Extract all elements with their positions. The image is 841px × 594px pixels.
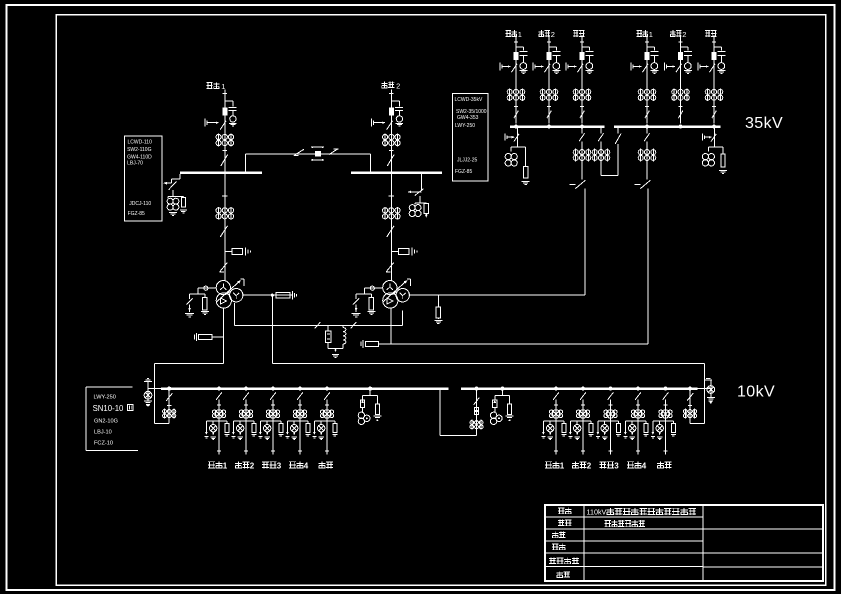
wire LV run to 10kV bus I xyxy=(154,362,223,364)
wire T1 MV lead with surge arrester xyxy=(242,294,293,296)
svg-text:1: 1 xyxy=(223,461,228,470)
35kV bus tie between sections xyxy=(600,127,602,134)
svg-text:3: 3 xyxy=(614,461,619,470)
transformer T2 neutral grounding switch + arrester xyxy=(365,287,383,289)
10kV outgoing feeder 线路1 (x=556) xyxy=(553,392,559,400)
10kV busbar section II xyxy=(461,387,697,390)
wire T2 MV lead to 35kV bus I xyxy=(408,294,585,296)
svg-text:JLJJ2-25: JLJJ2-25 xyxy=(457,158,478,164)
title row label 名称 xyxy=(558,519,564,521)
label 线路2 xyxy=(540,30,542,37)
svg-text:1: 1 xyxy=(560,461,565,470)
10kV outgoing feeder 线路2 (x=583) xyxy=(580,392,586,400)
label 线路2 xyxy=(237,461,239,468)
svg-text:JDCJ-110: JDCJ-110 xyxy=(129,201,151,207)
svg-text:2: 2 xyxy=(587,461,592,470)
10kV busbar section I xyxy=(161,387,449,390)
title row label 班级 xyxy=(554,532,556,538)
10kV outgoing feeder 备用 (x=665.5) xyxy=(663,392,669,400)
35kV outgoing feeder 线路1 (x=647) xyxy=(646,35,648,124)
svg-text:SN10-10: SN10-10 xyxy=(93,404,124,413)
35kV incomer to bus I (breaker + CTs) xyxy=(580,125,584,129)
35kV bus II PT + arrester at right end xyxy=(714,128,716,147)
arc suppression coil with damping resistor xyxy=(327,325,329,331)
10kV bus I end voltage transformer xyxy=(148,388,161,390)
label 备用 xyxy=(705,30,710,32)
svg-text:2: 2 xyxy=(551,30,555,39)
10kV outgoing feeder 线路4 (x=638) xyxy=(635,392,641,400)
svg-text:GN2-10G: GN2-10G xyxy=(94,418,118,424)
35kV busbar section II xyxy=(614,125,721,128)
10kV outgoing feeder 线路1 (x=219) xyxy=(216,392,222,400)
T2 MV surge arrester xyxy=(437,295,439,307)
T2 LV surge arrester on line xyxy=(365,341,378,346)
svg-text:4: 4 xyxy=(304,461,309,470)
bridge disconnector right xyxy=(329,149,338,155)
transformer T1 (three-winding, on-load tap changer) xyxy=(216,281,230,295)
110kV left bar PT + arrester cluster xyxy=(179,174,181,179)
10kV bus I voltage transformer + arrester branch xyxy=(369,389,371,396)
35kV outgoing feeder 线路2 (x=549) xyxy=(548,35,550,124)
svg-text:3: 3 xyxy=(277,461,282,470)
wire T1 LV lead down xyxy=(222,308,224,363)
35kV outgoing feeder 线路1 (x=516) xyxy=(515,35,517,124)
label 线路2 (110kV line 2) xyxy=(383,82,385,89)
10kV outgoing feeder 线路2 (x=246) xyxy=(243,392,249,400)
label 备用 xyxy=(660,461,662,468)
disconnector on coil line left xyxy=(315,322,321,328)
transformer T2 110kV riser (CTs, disconnector, neutral arrester) xyxy=(390,174,392,281)
svg-text:FCZ-10: FCZ-10 xyxy=(94,441,113,447)
label 线路1 xyxy=(208,461,215,463)
svg-text:2: 2 xyxy=(682,30,686,39)
label 线路1 xyxy=(545,461,552,463)
10kV outgoing feeder 线路3 (x=273) xyxy=(270,392,276,400)
10kV outgoing feeder 备用 (x=327) xyxy=(324,392,330,400)
transformer T2 (three-winding, on-load tap changer) xyxy=(383,281,397,295)
disconnector on coil line right xyxy=(351,322,357,328)
junction dots on 10kV buses xyxy=(167,387,171,391)
10kV bus II end voltage transformer xyxy=(697,388,711,390)
35kV bus I PT + arrester at left end xyxy=(517,128,519,147)
label 线路1 (110kV line 1) xyxy=(207,82,213,84)
svg-text:4: 4 xyxy=(642,461,647,470)
10kV outgoing feeder 线路3 (x=610.5) xyxy=(608,392,614,400)
svg-text:LCWD-110: LCWD-110 xyxy=(128,139,153,145)
equipment list box 110kV (LCWD-110) xyxy=(125,136,163,221)
110kV incoming line 2 feeder xyxy=(390,90,392,173)
35kV incomer to bus II (breaker + CTs) xyxy=(645,125,649,129)
label 线路1 xyxy=(637,29,642,31)
title row content 电气主接线图 xyxy=(605,520,611,522)
title block row lines left xyxy=(545,516,703,518)
bridge disconnector left xyxy=(294,149,304,155)
wire T2 bottom lead to 35kV bus II via arrester line xyxy=(390,308,392,344)
svg-text:LBJ-70: LBJ-70 xyxy=(127,161,143,167)
equipment list box 10kV (LWY-250) xyxy=(86,386,132,388)
label 线路1 xyxy=(506,29,511,31)
110kV incoming line 1 feeder xyxy=(224,90,226,173)
35kV busbar section I xyxy=(510,125,604,128)
title block row lines right xyxy=(703,528,823,530)
svg-text:FGZ-85: FGZ-85 xyxy=(455,169,472,175)
10kV incomer I (disconnector + CTs) xyxy=(168,390,170,424)
35kV outgoing feeder 线路2 (x=680.5) xyxy=(680,35,682,124)
label 备用 xyxy=(573,30,578,32)
T1 LV surge arrester xyxy=(212,336,223,338)
svg-text:35kV: 35kV xyxy=(745,115,783,132)
transformer T1 110kV riser (CTs, disconnector, neutral arrester) xyxy=(224,174,226,281)
title row label 项目 xyxy=(558,507,564,509)
label 线路4 xyxy=(289,461,296,463)
svg-text:GW4-110D: GW4-110D xyxy=(127,155,152,161)
bridge connection wire xyxy=(245,154,247,173)
svg-text:1: 1 xyxy=(221,82,225,91)
svg-text:1: 1 xyxy=(649,30,653,39)
35kV outgoing feeder 备用 (x=714) xyxy=(713,35,715,124)
svg-text:2: 2 xyxy=(396,81,400,90)
110kV right bar PT + arrester cluster xyxy=(420,174,422,191)
label 线路4 xyxy=(627,461,634,463)
svg-text:LWY-250: LWY-250 xyxy=(94,395,116,401)
title row label 时间 xyxy=(559,571,561,577)
title row label 姓名 xyxy=(552,543,558,545)
svg-text:LWY-250: LWY-250 xyxy=(455,123,475,129)
label 线路3 xyxy=(599,461,606,463)
label 线路2 xyxy=(574,461,576,468)
10kV outgoing feeder 线路4 (x=300) xyxy=(297,392,303,400)
10kV bus tie between sections xyxy=(439,390,441,435)
110kV bus bar right (bridge scheme) xyxy=(351,172,442,175)
svg-text:LCWD-35kV: LCWD-35kV xyxy=(455,97,483,103)
label 备用 xyxy=(321,461,323,468)
svg-text:LBJ-10: LBJ-10 xyxy=(94,430,112,436)
10kV bus II voltage transformer + arrester branch xyxy=(501,389,503,396)
title block frame xyxy=(545,505,823,581)
transformer T1 neutral grounding switch + arrester xyxy=(198,287,216,289)
title row label 指导老师 xyxy=(549,557,556,559)
svg-text:FGZ-85: FGZ-85 xyxy=(128,211,145,217)
wire T1 MV drop xyxy=(271,295,273,363)
svg-text:SW2-110G: SW2-110G xyxy=(127,147,151,153)
label 线路2 xyxy=(672,30,674,37)
110kV bus bar left (bridge scheme) xyxy=(180,172,262,175)
svg-text:10kV: 10kV xyxy=(737,384,775,401)
svg-text:GW4-353: GW4-353 xyxy=(457,115,479,121)
35kV outgoing feeder 备用 (x=582) xyxy=(581,35,583,124)
label 线路3 xyxy=(262,461,269,463)
arc suppression coil tie line between transformers xyxy=(234,303,236,325)
svg-text:2: 2 xyxy=(250,461,255,470)
bridge circuit breaker xyxy=(315,151,320,155)
10kV incomer II (disconnector + CTs) xyxy=(689,390,691,423)
wire MV run to 10kV bus II xyxy=(272,362,704,364)
svg-text:SW2-35/1000: SW2-35/1000 xyxy=(456,109,487,115)
svg-text:110kV: 110kV xyxy=(587,508,607,517)
title block column dividers xyxy=(583,505,585,581)
equipment list box 35kV (LCWD-35kV) xyxy=(453,93,488,181)
svg-text:1: 1 xyxy=(518,30,522,39)
